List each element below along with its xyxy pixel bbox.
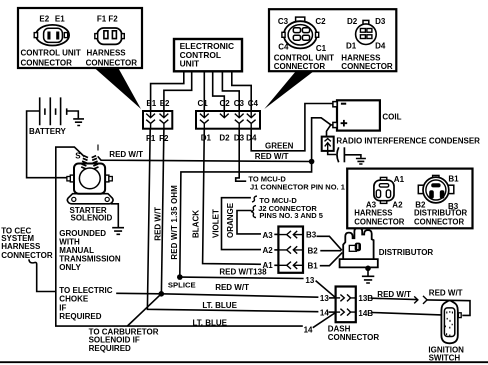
coil plus terminal mark bbox=[341, 120, 348, 127]
svg-text:J1 CONNECTOR PIN NO. 1: J1 CONNECTOR PIN NO. 1 bbox=[250, 182, 345, 191]
wire carburetor solenoid diagonal bbox=[127, 294, 161, 326]
svg-text:13: 13 bbox=[320, 294, 329, 303]
svg-text:BATTERY: BATTERY bbox=[29, 127, 67, 136]
svg-text:HARNESS: HARNESS bbox=[87, 49, 127, 58]
svg-text:CONTROL UNIT: CONTROL UNIT bbox=[21, 49, 81, 58]
terminal 14/14B bbox=[336, 309, 356, 316]
svg-text:RED W/T: RED W/T bbox=[255, 152, 289, 161]
svg-text:D4: D4 bbox=[375, 41, 386, 50]
connector D harness connector drawing bbox=[356, 20, 377, 44]
svg-text:SOLENOID: SOLENOID bbox=[71, 214, 113, 223]
wire 13 diagonal into dash pin bbox=[316, 281, 336, 298]
wire battery positive to starter solenoid bbox=[27, 111, 67, 178]
wire B1 to distributor bbox=[320, 253, 343, 266]
wire A3 into block bbox=[274, 233, 278, 235]
splice junction bbox=[177, 274, 183, 280]
inline connector chevron bbox=[423, 296, 427, 304]
connector block A/B bbox=[278, 227, 303, 273]
svg-text:RED W/T: RED W/T bbox=[154, 207, 163, 241]
wire B3 to distributor bbox=[317, 236, 342, 250]
wire solenoid ground (manual transmission) bbox=[111, 204, 118, 227]
svg-text:ORANGE: ORANGE bbox=[226, 202, 235, 238]
solenoid I terminal (spring) bbox=[92, 156, 99, 169]
svg-text:CONNECTOR: CONNECTOR bbox=[86, 58, 138, 67]
svg-text:E1: E1 bbox=[55, 14, 65, 23]
svg-text:I: I bbox=[97, 143, 99, 152]
svg-text:13B: 13B bbox=[358, 294, 373, 303]
svg-text:BLACK: BLACK bbox=[192, 210, 201, 238]
svg-text:CONNECTOR: CONNECTOR bbox=[274, 62, 326, 71]
brace (J2 note, line 1) bbox=[252, 196, 257, 202]
svg-text:UNIT: UNIT bbox=[180, 59, 200, 69]
terminal C2 (arrow only) bbox=[220, 111, 229, 118]
svg-text:B3: B3 bbox=[306, 231, 317, 240]
wire VIOLET (J2 to A2) bbox=[222, 198, 262, 250]
svg-text:A1: A1 bbox=[394, 175, 405, 184]
terminal A1/B1 bbox=[278, 262, 303, 269]
svg-text:E2: E2 bbox=[160, 99, 170, 108]
svg-text:PINS NO. 3 AND 5: PINS NO. 3 AND 5 bbox=[259, 211, 323, 220]
svg-text:C1: C1 bbox=[316, 44, 327, 53]
wire 13 into dash pin bbox=[329, 297, 336, 299]
junction RED W/T at coil + branch bbox=[309, 159, 315, 165]
svg-text:D2: D2 bbox=[219, 134, 230, 143]
wire ORANGE (J2 to A3) bbox=[237, 211, 261, 234]
junction distributor ground bbox=[365, 266, 371, 272]
svg-text:CHOKE: CHOKE bbox=[59, 295, 89, 304]
wire inline connector to ignition switch terminal bbox=[427, 300, 470, 316]
condenser terminal symbol (chevron + up arrow) bbox=[325, 139, 331, 150]
capacitor (condenser) bbox=[337, 147, 344, 162]
callout pointer to C4 terminal bbox=[264, 71, 314, 109]
wire solenoid S to CEC system / LT.BLUE lower run bbox=[56, 147, 303, 326]
svg-text:IF: IF bbox=[59, 303, 66, 312]
svg-text:WITH: WITH bbox=[59, 237, 80, 246]
svg-text:CONNECTOR: CONNECTOR bbox=[341, 62, 393, 71]
svg-text:HARNESS: HARNESS bbox=[1, 242, 41, 251]
svg-text:13: 13 bbox=[305, 276, 314, 285]
svg-text:14B: 14B bbox=[358, 309, 373, 318]
inline connector arrow bbox=[414, 296, 418, 303]
svg-text:E2: E2 bbox=[39, 14, 49, 23]
svg-text:RED W/T: RED W/T bbox=[429, 288, 463, 297]
wire B2 to distributor bbox=[320, 250, 341, 252]
wire ECU to E1 bbox=[151, 71, 184, 111]
coil bbox=[333, 100, 380, 130]
callout box: ECU connectors (left) bbox=[18, 8, 142, 68]
svg-text:RED W/T138: RED W/T138 bbox=[219, 268, 267, 277]
svg-text:RED W/T: RED W/T bbox=[215, 283, 249, 292]
callout box: ECU connectors (right) bbox=[269, 9, 396, 71]
terminal E1/F1 (arrow + chevron) bbox=[146, 111, 155, 129]
svg-text:D1: D1 bbox=[201, 134, 212, 143]
svg-text:D2: D2 bbox=[347, 17, 358, 26]
terminal A2/B2 bbox=[278, 246, 303, 253]
svg-text:B1: B1 bbox=[308, 262, 319, 271]
svg-text:DISTRIBUTOR: DISTRIBUTOR bbox=[379, 248, 434, 257]
ignition switch side terminal bbox=[458, 313, 461, 318]
ground (battery) bbox=[73, 119, 84, 126]
wire distributor to ground bbox=[367, 267, 369, 275]
solenoid S terminal (spring) bbox=[81, 156, 88, 169]
wire solenoid I to coil + (RED W/T) bbox=[98, 156, 312, 161]
svg-text:SPLICE: SPLICE bbox=[168, 281, 196, 290]
wire junction to coil + bbox=[312, 118, 333, 162]
ground (solenoid) bbox=[112, 228, 124, 235]
svg-text:RED W/T: RED W/T bbox=[377, 290, 411, 299]
wire junction down to 1.35 ohm resistance wire and splice bbox=[180, 162, 312, 278]
svg-text:A3: A3 bbox=[263, 231, 274, 240]
wire condenser to capacitor bbox=[328, 151, 336, 155]
wire A2 into block bbox=[274, 249, 278, 251]
svg-text:14: 14 bbox=[320, 308, 329, 317]
svg-text:C1: C1 bbox=[197, 99, 208, 108]
connector block C1-C4 / D1-D4 bbox=[196, 111, 260, 129]
svg-text:COIL: COIL bbox=[382, 112, 401, 121]
bottom border line bbox=[0, 361, 488, 363]
wire ECU to C1 bbox=[203, 71, 205, 111]
terminal 13/13B bbox=[336, 294, 356, 301]
wire 13B to inline connector (RED W/T) bbox=[372, 298, 418, 299]
svg-text:A2: A2 bbox=[392, 200, 403, 209]
svg-text:CONNECTOR: CONNECTOR bbox=[354, 217, 404, 226]
wire F2 to choke junction bbox=[161, 129, 164, 294]
wire capacitor to ground bbox=[344, 155, 361, 158]
terminal C1/D1 bbox=[200, 111, 209, 129]
terminal C4/D4 bbox=[247, 111, 256, 129]
ground (condenser) bbox=[356, 159, 366, 165]
terminal C3/D3 bbox=[235, 111, 244, 129]
svg-text:D3: D3 bbox=[375, 17, 386, 26]
svg-text:ONLY: ONLY bbox=[59, 263, 81, 272]
svg-text:TO ELECTRIC: TO ELECTRIC bbox=[59, 286, 112, 295]
wire 14B to ignition switch bbox=[372, 313, 442, 315]
connector F1/F2 harness connector drawing bbox=[95, 28, 125, 44]
brace (J2 note, line 2) bbox=[251, 206, 256, 218]
svg-text:VIOLET: VIOLET bbox=[211, 209, 220, 238]
svg-text:CONNECTOR: CONNECTOR bbox=[414, 217, 464, 226]
svg-text:RED W/T 1.35 OHM: RED W/T 1.35 OHM bbox=[170, 185, 179, 260]
junction choke/carburetor/13 bbox=[159, 291, 165, 297]
wire D3 hook to MCU-D J1 bbox=[236, 129, 247, 182]
svg-text:GREEN: GREEN bbox=[265, 142, 294, 151]
svg-text:14: 14 bbox=[304, 325, 313, 334]
wire A1 into block bbox=[274, 264, 278, 266]
wire ECU to C3 bbox=[222, 71, 239, 111]
svg-text:LT. BLUE: LT. BLUE bbox=[193, 318, 228, 327]
wire 14 into dash pin bbox=[328, 311, 335, 313]
wire ECU to C4 bbox=[232, 71, 251, 111]
svg-text:TRANSMISSION: TRANSMISSION bbox=[59, 254, 121, 263]
connector B distributor connector drawing bbox=[418, 175, 454, 203]
dash connector block bbox=[336, 287, 356, 323]
svg-text:CONNECTOR: CONNECTOR bbox=[328, 333, 380, 342]
wire splice to 13 (RED W/T138) bbox=[180, 277, 304, 278]
electronic control unit box bbox=[174, 39, 242, 71]
battery bbox=[40, 97, 67, 125]
svg-text:C3: C3 bbox=[234, 99, 245, 108]
svg-text:RADIO INTERFERENCE CONDENSER: RADIO INTERFERENCE CONDENSER bbox=[336, 136, 480, 145]
svg-text:B2: B2 bbox=[308, 246, 319, 255]
svg-text:A2: A2 bbox=[263, 246, 274, 255]
wire ECU to E2 bbox=[164, 71, 192, 111]
wire 14 diagonal into dash connector bbox=[313, 313, 336, 328]
wire D1 to A1 (BLACK) bbox=[203, 129, 261, 265]
svg-text:C4: C4 bbox=[278, 43, 289, 52]
svg-text:F1: F1 bbox=[146, 134, 156, 143]
svg-text:REQUIRED: REQUIRED bbox=[59, 312, 101, 321]
svg-text:SWITCH: SWITCH bbox=[429, 353, 461, 362]
ground (distributor) bbox=[362, 276, 374, 283]
terminal A3/B3 bbox=[278, 231, 303, 238]
radio interference condenser box bbox=[322, 137, 334, 151]
wire F1 to dash 14 (LT. BLUE) bbox=[147, 129, 318, 312]
ignition switch bbox=[441, 300, 457, 343]
connector block E1,E2 / F1,F2 bbox=[143, 111, 172, 129]
svg-text:C3: C3 bbox=[278, 17, 289, 26]
svg-text:LT. BLUE: LT. BLUE bbox=[202, 301, 237, 310]
wire junction to dash 13 (RED W/T) bbox=[161, 294, 318, 297]
svg-text:RED W/T: RED W/T bbox=[109, 150, 143, 159]
svg-text:F1 F2: F1 F2 bbox=[97, 14, 118, 23]
arrow from CEC label to wire bbox=[29, 259, 56, 291]
connector C control unit connector drawing bbox=[282, 17, 319, 48]
wire battery negative to ground bbox=[67, 111, 79, 118]
callout pointer to E1/E2 terminals bbox=[94, 68, 141, 110]
svg-text:HARNESS: HARNESS bbox=[341, 53, 381, 62]
coil minus terminal mark bbox=[341, 103, 346, 105]
svg-text:CONNECTOR: CONNECTOR bbox=[1, 251, 53, 260]
distributor bbox=[340, 228, 378, 268]
wire D4 to coil negative (GREEN) bbox=[251, 104, 333, 151]
svg-text:B1: B1 bbox=[448, 174, 459, 183]
connector A harness connector drawing bbox=[374, 177, 394, 203]
starter solenoid bbox=[67, 164, 113, 204]
svg-text:E1: E1 bbox=[146, 99, 156, 108]
connector E2/E1 control unit connector drawing bbox=[34, 25, 69, 46]
terminal E2/F2 (arrow + chevron) bbox=[160, 111, 169, 129]
svg-text:REQUIRED: REQUIRED bbox=[89, 344, 131, 353]
callout box: harness/distributor connectors bbox=[347, 169, 472, 229]
wire branch to radio condenser bbox=[327, 125, 331, 137]
svg-text:C2: C2 bbox=[315, 17, 326, 26]
svg-text:C4: C4 bbox=[248, 99, 259, 108]
wire electric choke to junction bbox=[116, 292, 161, 295]
svg-text:CONNECTOR: CONNECTOR bbox=[21, 58, 73, 67]
svg-text:D1: D1 bbox=[346, 41, 357, 50]
svg-text:C2: C2 bbox=[219, 99, 230, 108]
wire ECU to C2 bbox=[213, 71, 225, 111]
svg-text:CONTROL UNIT: CONTROL UNIT bbox=[274, 53, 334, 62]
